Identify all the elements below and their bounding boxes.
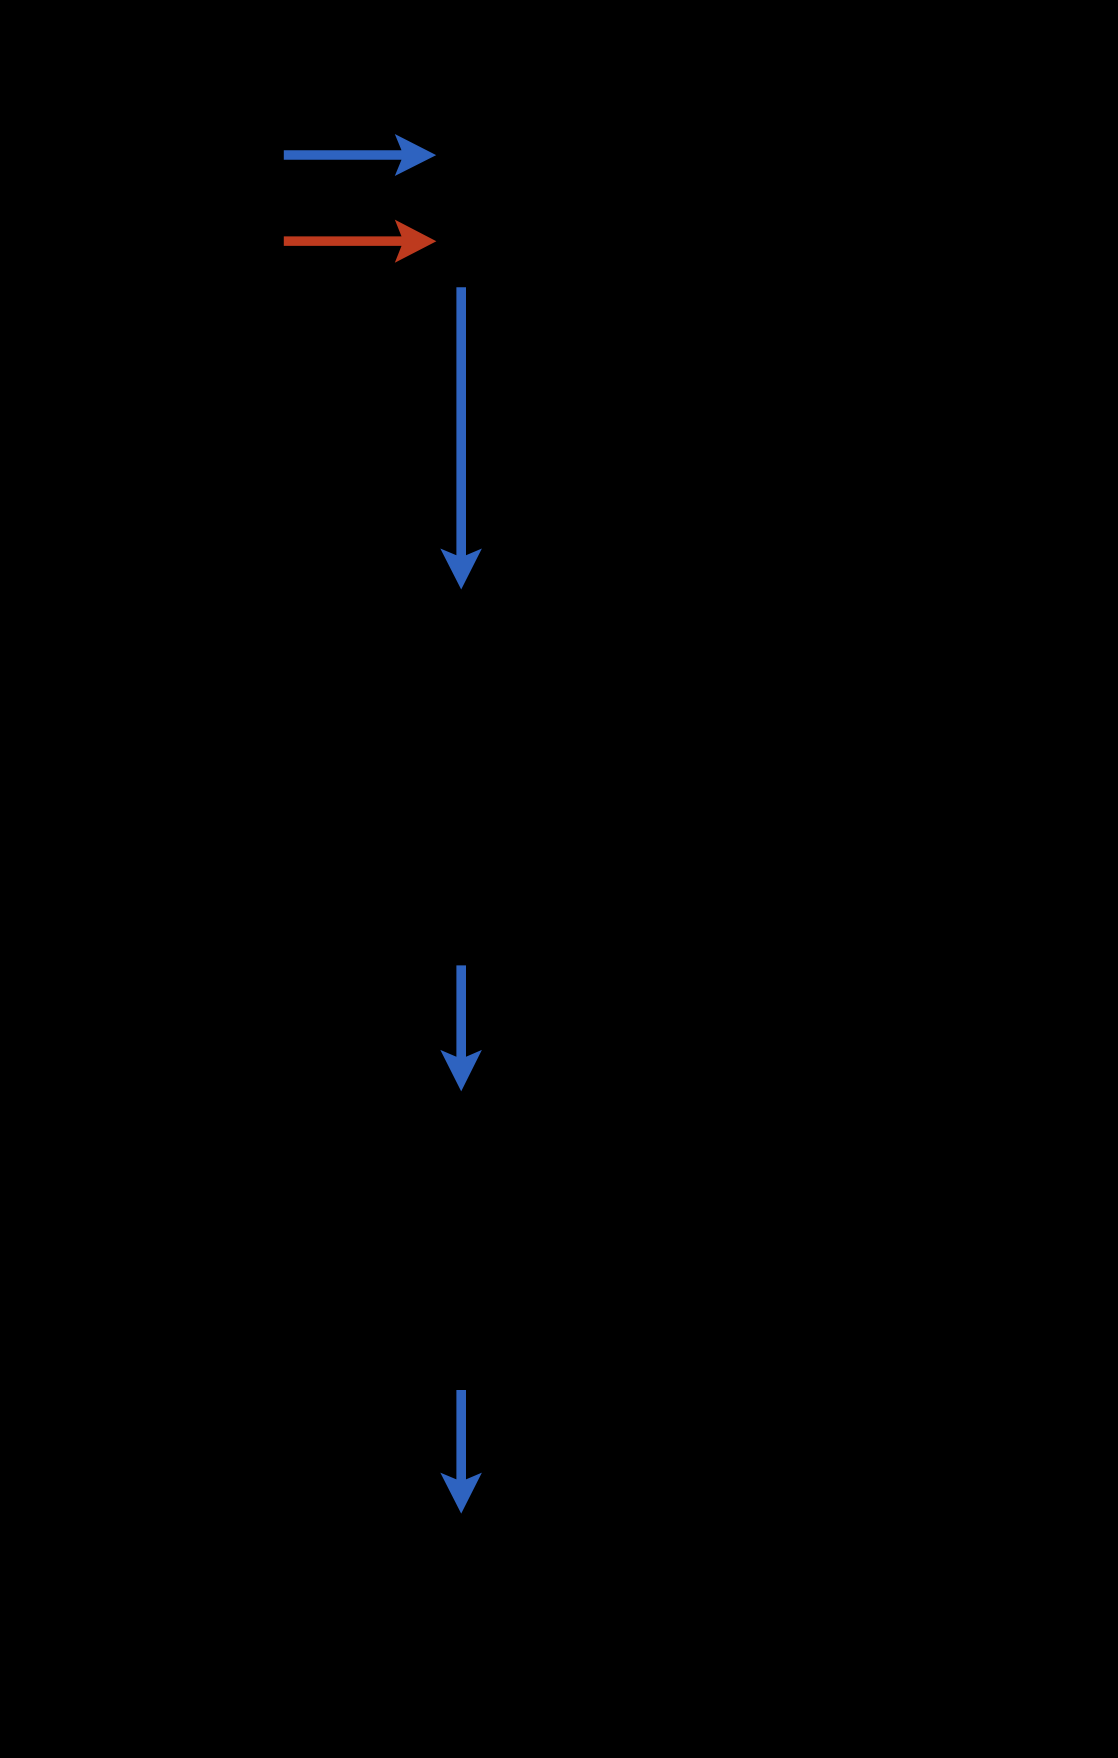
red horizontal arrow (legend, bottom): [284, 220, 437, 263]
vertical blue arrow 1: [440, 287, 482, 589]
vertical blue arrow 2: [440, 965, 482, 1091]
blue horizontal arrow (legend, top): [284, 134, 436, 176]
vertical blue arrow 3: [440, 1390, 482, 1514]
